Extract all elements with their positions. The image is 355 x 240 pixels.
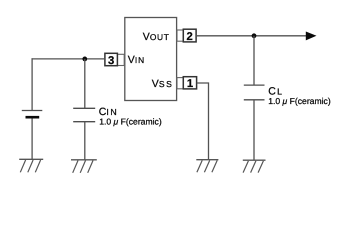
pin label VOUT <box>143 31 170 43</box>
svg-text:VOUT: VOUT <box>143 31 170 43</box>
wire VSS (pin 1 to ground, L-shape) <box>197 83 209 160</box>
wire junction to CL <box>253 36 255 85</box>
label CIN <box>99 106 119 118</box>
ground (under CL) <box>243 160 266 172</box>
wire junction to CIN <box>84 59 86 108</box>
capacitor CL <box>244 85 265 100</box>
battery (input source) <box>22 111 43 119</box>
pin 2 terminal (VOUT) <box>177 29 196 43</box>
svg-text:1: 1 <box>187 78 193 90</box>
svg-text:VSS: VSS <box>152 78 174 90</box>
ground (under battery) <box>19 159 43 172</box>
ground (under CIN) <box>71 160 97 173</box>
wire CL to ground <box>253 100 255 160</box>
label CL <box>268 85 282 97</box>
wire battery drop (corner down to battery) <box>31 58 33 110</box>
svg-text:VIN: VIN <box>128 54 145 66</box>
node input junction <box>82 57 87 62</box>
wire CIN to ground <box>84 122 86 160</box>
wire input horizontal (battery to pin 3) <box>32 58 105 60</box>
pin 3 terminal (VIN) <box>105 53 124 67</box>
pin label VSS <box>152 78 174 90</box>
wire battery to ground <box>31 119 33 160</box>
svg-text:1.0 μ F(ceramic): 1.0 μ F(ceramic) <box>99 116 162 126</box>
svg-text:1.0 μ F(ceramic): 1.0 μ F(ceramic) <box>268 96 331 106</box>
svg-text:3: 3 <box>108 55 114 67</box>
value label 1.0uF ceramic (CL) <box>268 96 331 106</box>
value label 1.0uF ceramic (CIN) <box>99 116 162 126</box>
svg-text:2: 2 <box>187 31 193 43</box>
ground (under VSS wire) <box>196 160 218 173</box>
pin label VIN <box>128 54 145 66</box>
pin 1 terminal (VSS) <box>177 77 197 91</box>
node output junction <box>252 33 257 38</box>
wire output (pin 2 to arrow) <box>196 35 307 37</box>
arrowhead output <box>306 32 317 41</box>
regulator IC U1 <box>125 18 177 101</box>
capacitor CIN <box>73 108 95 121</box>
